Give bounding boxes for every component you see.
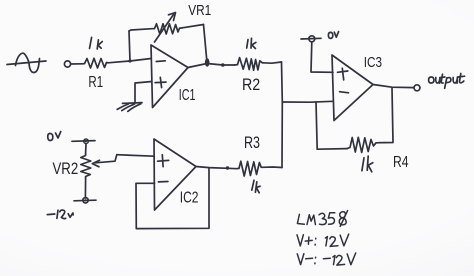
wire R4 branch horizontal	[317, 148, 347, 151]
wire feedback top-right	[180, 25, 204, 29]
node junction at feedback tap	[128, 59, 131, 62]
wire R1 to IC1 inverting input	[108, 59, 151, 63]
svg-text:R1: R1	[88, 74, 103, 91]
node junction on IC2 output	[226, 166, 229, 169]
label output handwritten	[429, 74, 465, 89]
label LM 358 handwritten	[297, 211, 347, 227]
wire to IC3 inverting input	[282, 100, 333, 103]
label V+: 12V handwritten	[297, 234, 349, 246]
svg-text:VR1: VR1	[188, 2, 211, 19]
resistor R3	[237, 161, 263, 176]
svg-text:IC3: IC3	[364, 54, 382, 71]
wire feedback right vertical	[204, 25, 207, 61]
resistor R1	[82, 58, 108, 68]
label 0v (VR2) handwritten	[48, 132, 61, 141]
wire R3 to summing vertical	[262, 166, 282, 169]
wire R2 to summing vertical	[262, 62, 281, 63]
wire IC1 noninverting to ground	[135, 82, 152, 103]
wire VR2 to -12v terminal	[84, 178, 86, 198]
terminal 0v above VR2	[72, 139, 95, 144]
terminal 0v above IC3	[301, 36, 321, 42]
svg-text:IC2: IC2	[180, 189, 199, 206]
terminal -12v	[74, 198, 96, 203]
label 1k (R2) handwritten	[247, 38, 256, 48]
wire 0v to IC3 noninverting	[311, 42, 333, 73]
resistor R4	[347, 137, 384, 152]
svg-text:VR2: VR2	[53, 160, 79, 178]
wire IC1 output to R2	[188, 64, 235, 68]
op-amp IC2	[154, 139, 196, 210]
node junction feedback/output	[205, 58, 225, 67]
signal source (sine)	[7, 53, 46, 72]
label V-: -12V handwritten	[297, 253, 355, 265]
wire feedback left vertical	[129, 31, 130, 61]
wire IC2 feedback loop	[136, 168, 209, 229]
label 1k (R1) handwritten	[90, 37, 103, 49]
variable resistor VR2	[81, 154, 117, 179]
label 1k (R3) handwritten	[252, 180, 260, 193]
wire R4 branch vertical	[316, 102, 317, 149]
label 1k (R4) handwritten	[362, 156, 373, 172]
svg-text:IC1: IC1	[179, 87, 196, 104]
resistor R2	[235, 58, 263, 71]
wire IC3 output	[373, 85, 414, 88]
wire 0v terminal to VR2	[85, 144, 87, 154]
variable resistor VR1	[152, 13, 181, 43]
output terminal	[414, 85, 420, 91]
op-amp IC3	[332, 55, 373, 121]
label -12v handwritten	[47, 210, 73, 219]
label 0v (IC3) handwritten	[328, 32, 338, 39]
input terminal	[64, 61, 70, 67]
wire input terminal to R1	[71, 63, 82, 65]
wire IC2 output to R3	[196, 167, 237, 169]
wire feedback top-left	[129, 29, 152, 31]
svg-text:R3: R3	[244, 134, 260, 152]
svg-text:R2: R2	[242, 76, 260, 94]
op-amp IC1	[151, 45, 188, 108]
wire summing node vertical (R2 down to R3)	[281, 62, 284, 168]
wire IC3 feedback right vertical	[384, 88, 393, 143]
svg-text:R4: R4	[393, 154, 409, 171]
ground	[117, 103, 142, 112]
wire VR2 wiper to IC2 noninverting	[117, 155, 154, 157]
